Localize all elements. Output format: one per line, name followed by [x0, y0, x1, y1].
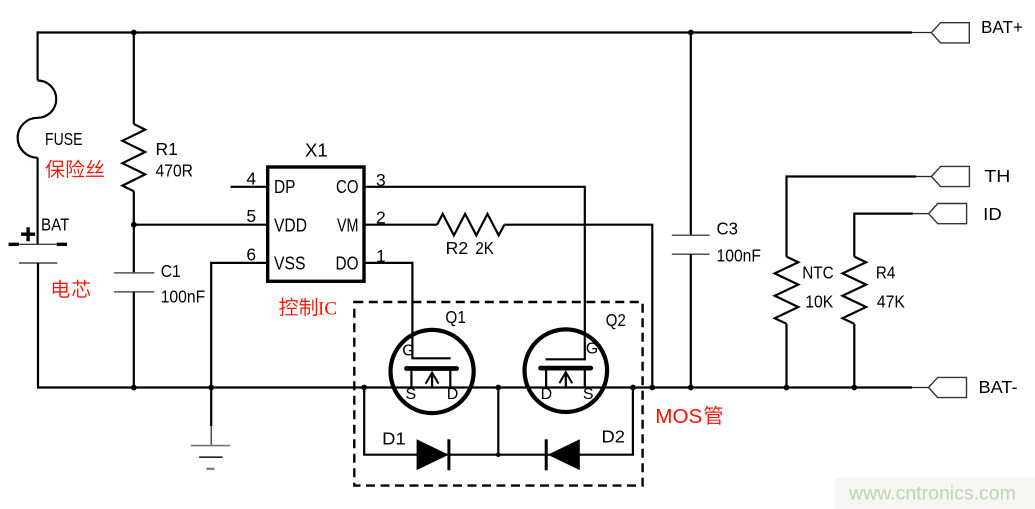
- svg-text:BAT+: BAT+: [981, 17, 1023, 37]
- svg-text:S: S: [406, 386, 417, 403]
- svg-text:R1: R1: [156, 139, 178, 159]
- svg-text:100nF: 100nF: [717, 246, 762, 266]
- terminal BAT+: [931, 23, 969, 43]
- svg-text:www.cntronics.com: www.cntronics.com: [848, 483, 1016, 505]
- svg-text:6: 6: [246, 244, 256, 264]
- svg-text:10K: 10K: [805, 292, 833, 312]
- wire: thin lead into BAT+ terminal: [912, 32, 931, 34]
- transistor Q1 circle: [391, 330, 474, 413]
- svg-text:FUSE: FUSE: [45, 129, 83, 149]
- resistor R1 470R zigzag: [122, 124, 145, 191]
- svg-text:470R: 470R: [156, 161, 194, 181]
- svg-text:Q1: Q1: [445, 307, 466, 327]
- svg-text:MOS: MOS: [655, 406, 702, 428]
- svg-text:BAT: BAT: [41, 215, 70, 235]
- svg-text:2K: 2K: [475, 238, 494, 258]
- wire: pin 4 DP stub: [231, 186, 268, 188]
- wire: fuse to battery top plate: [36, 158, 38, 245]
- red note 控制IC (control IC): [279, 298, 298, 316]
- svg-text:DP: DP: [274, 177, 296, 197]
- svg-text:3: 3: [376, 170, 386, 190]
- wire: left vertical from top rail to fuse: [36, 31, 38, 80]
- svg-text:D2: D2: [602, 427, 626, 447]
- watermark band: [836, 478, 1035, 509]
- svg-text:BAT-: BAT-: [979, 377, 1018, 397]
- wire: pin 5 VDD to R1/C1 node: [134, 224, 268, 226]
- svg-text:VSS: VSS: [274, 253, 306, 273]
- transistor Q1 channel bar: [407, 366, 457, 371]
- wire: pin 2 VM to R2: [364, 224, 437, 226]
- wire: diode loop below MOSFETs: [364, 388, 633, 455]
- transistor Q2 source/drain legs: [546, 369, 585, 388]
- diode D1: [417, 439, 449, 470]
- resistor R4 47K zigzag: [843, 257, 867, 324]
- terminal BAT-: [929, 377, 967, 397]
- svg-text:5: 5: [246, 206, 256, 226]
- capacitor C1 plates: [114, 273, 154, 292]
- wire: R2 to bottom rail at right of MOS box: [504, 225, 652, 388]
- svg-text:2: 2: [376, 208, 386, 228]
- dashed box around MOSFETs: [354, 302, 642, 486]
- diode D2: [548, 439, 580, 470]
- wire: pin 6 VSS to ground drop: [211, 263, 268, 388]
- wire: C3 branch: [690, 33, 692, 236]
- svg-text:G: G: [402, 343, 414, 360]
- wire: pin 3 CO to Q2 gate: [364, 187, 585, 359]
- svg-text:1: 1: [376, 246, 386, 266]
- svg-text:G: G: [586, 341, 598, 358]
- wire: R1 branch from top rail: [133, 33, 135, 125]
- transistor Q1 body arrow: [431, 374, 433, 388]
- svg-text:IC: IC: [318, 299, 337, 320]
- transistor Q2 body arrow: [565, 373, 567, 387]
- op-amp/IC U1 box X1: [268, 167, 364, 281]
- fuse F1 (S-curve symbol): [18, 81, 57, 158]
- transistor Q1 source/drain legs: [411, 369, 450, 388]
- svg-text:C1: C1: [161, 261, 181, 281]
- svg-text:TH: TH: [984, 166, 1010, 186]
- svg-text:4: 4: [246, 168, 256, 188]
- svg-text:47K: 47K: [877, 292, 905, 312]
- svg-text:DO: DO: [336, 253, 359, 273]
- capacitor C3 plates: [672, 235, 710, 254]
- resistor NTC 10K zigzag: [775, 257, 799, 324]
- svg-text:100nF: 100nF: [161, 287, 206, 307]
- wire: top rail (BAT+ net): [38, 31, 912, 33]
- svg-text:C3: C3: [717, 219, 739, 239]
- svg-text:D1: D1: [382, 429, 406, 449]
- svg-text:X1: X1: [305, 141, 328, 161]
- battery BAT top plate: [9, 243, 67, 245]
- red note 保险丝 (fuse): [45, 160, 64, 178]
- svg-text:R2: R2: [446, 238, 469, 258]
- svg-text:CO: CO: [336, 177, 359, 197]
- svg-text:D: D: [541, 386, 553, 403]
- svg-text:NTC: NTC: [802, 263, 834, 283]
- battery BAT bottom plate: [19, 262, 57, 264]
- svg-text:VDD: VDD: [274, 215, 307, 235]
- transistor Q2 circle: [525, 329, 608, 412]
- svg-text:D: D: [447, 386, 459, 403]
- wire: battery to bottom rail: [37, 263, 39, 389]
- resistor R2 2K zigzag: [437, 214, 504, 236]
- svg-text:VM: VM: [337, 215, 359, 235]
- terminal TH: [931, 166, 969, 186]
- svg-text:ID: ID: [983, 204, 1002, 224]
- svg-text:S: S: [583, 386, 594, 403]
- svg-text:R4: R4: [876, 263, 896, 283]
- wire: C1 to bottom rail: [133, 292, 135, 388]
- wire: ID line to R4: [854, 214, 913, 257]
- red note 电芯 (cell): [53, 280, 70, 298]
- wire: pin 1 DO to Q1 gate: [364, 263, 451, 358]
- wire: thin lead into BAT- terminal: [912, 387, 929, 389]
- wire: center drop to diode row: [497, 388, 499, 455]
- node: junction dots: [131, 30, 137, 36]
- wire: TH line to NTC: [787, 177, 917, 257]
- node: small junction on diode row: [496, 452, 501, 457]
- wire: R1 to C1: [133, 191, 135, 273]
- terminal ID: [929, 204, 967, 224]
- ground symbol: [210, 388, 212, 427]
- svg-text:Q2: Q2: [606, 310, 626, 330]
- battery BAT plus sign: [21, 227, 35, 241]
- transistor Q2 channel bar: [541, 366, 591, 371]
- wire: bottom rail (BAT- net): [37, 386, 912, 388]
